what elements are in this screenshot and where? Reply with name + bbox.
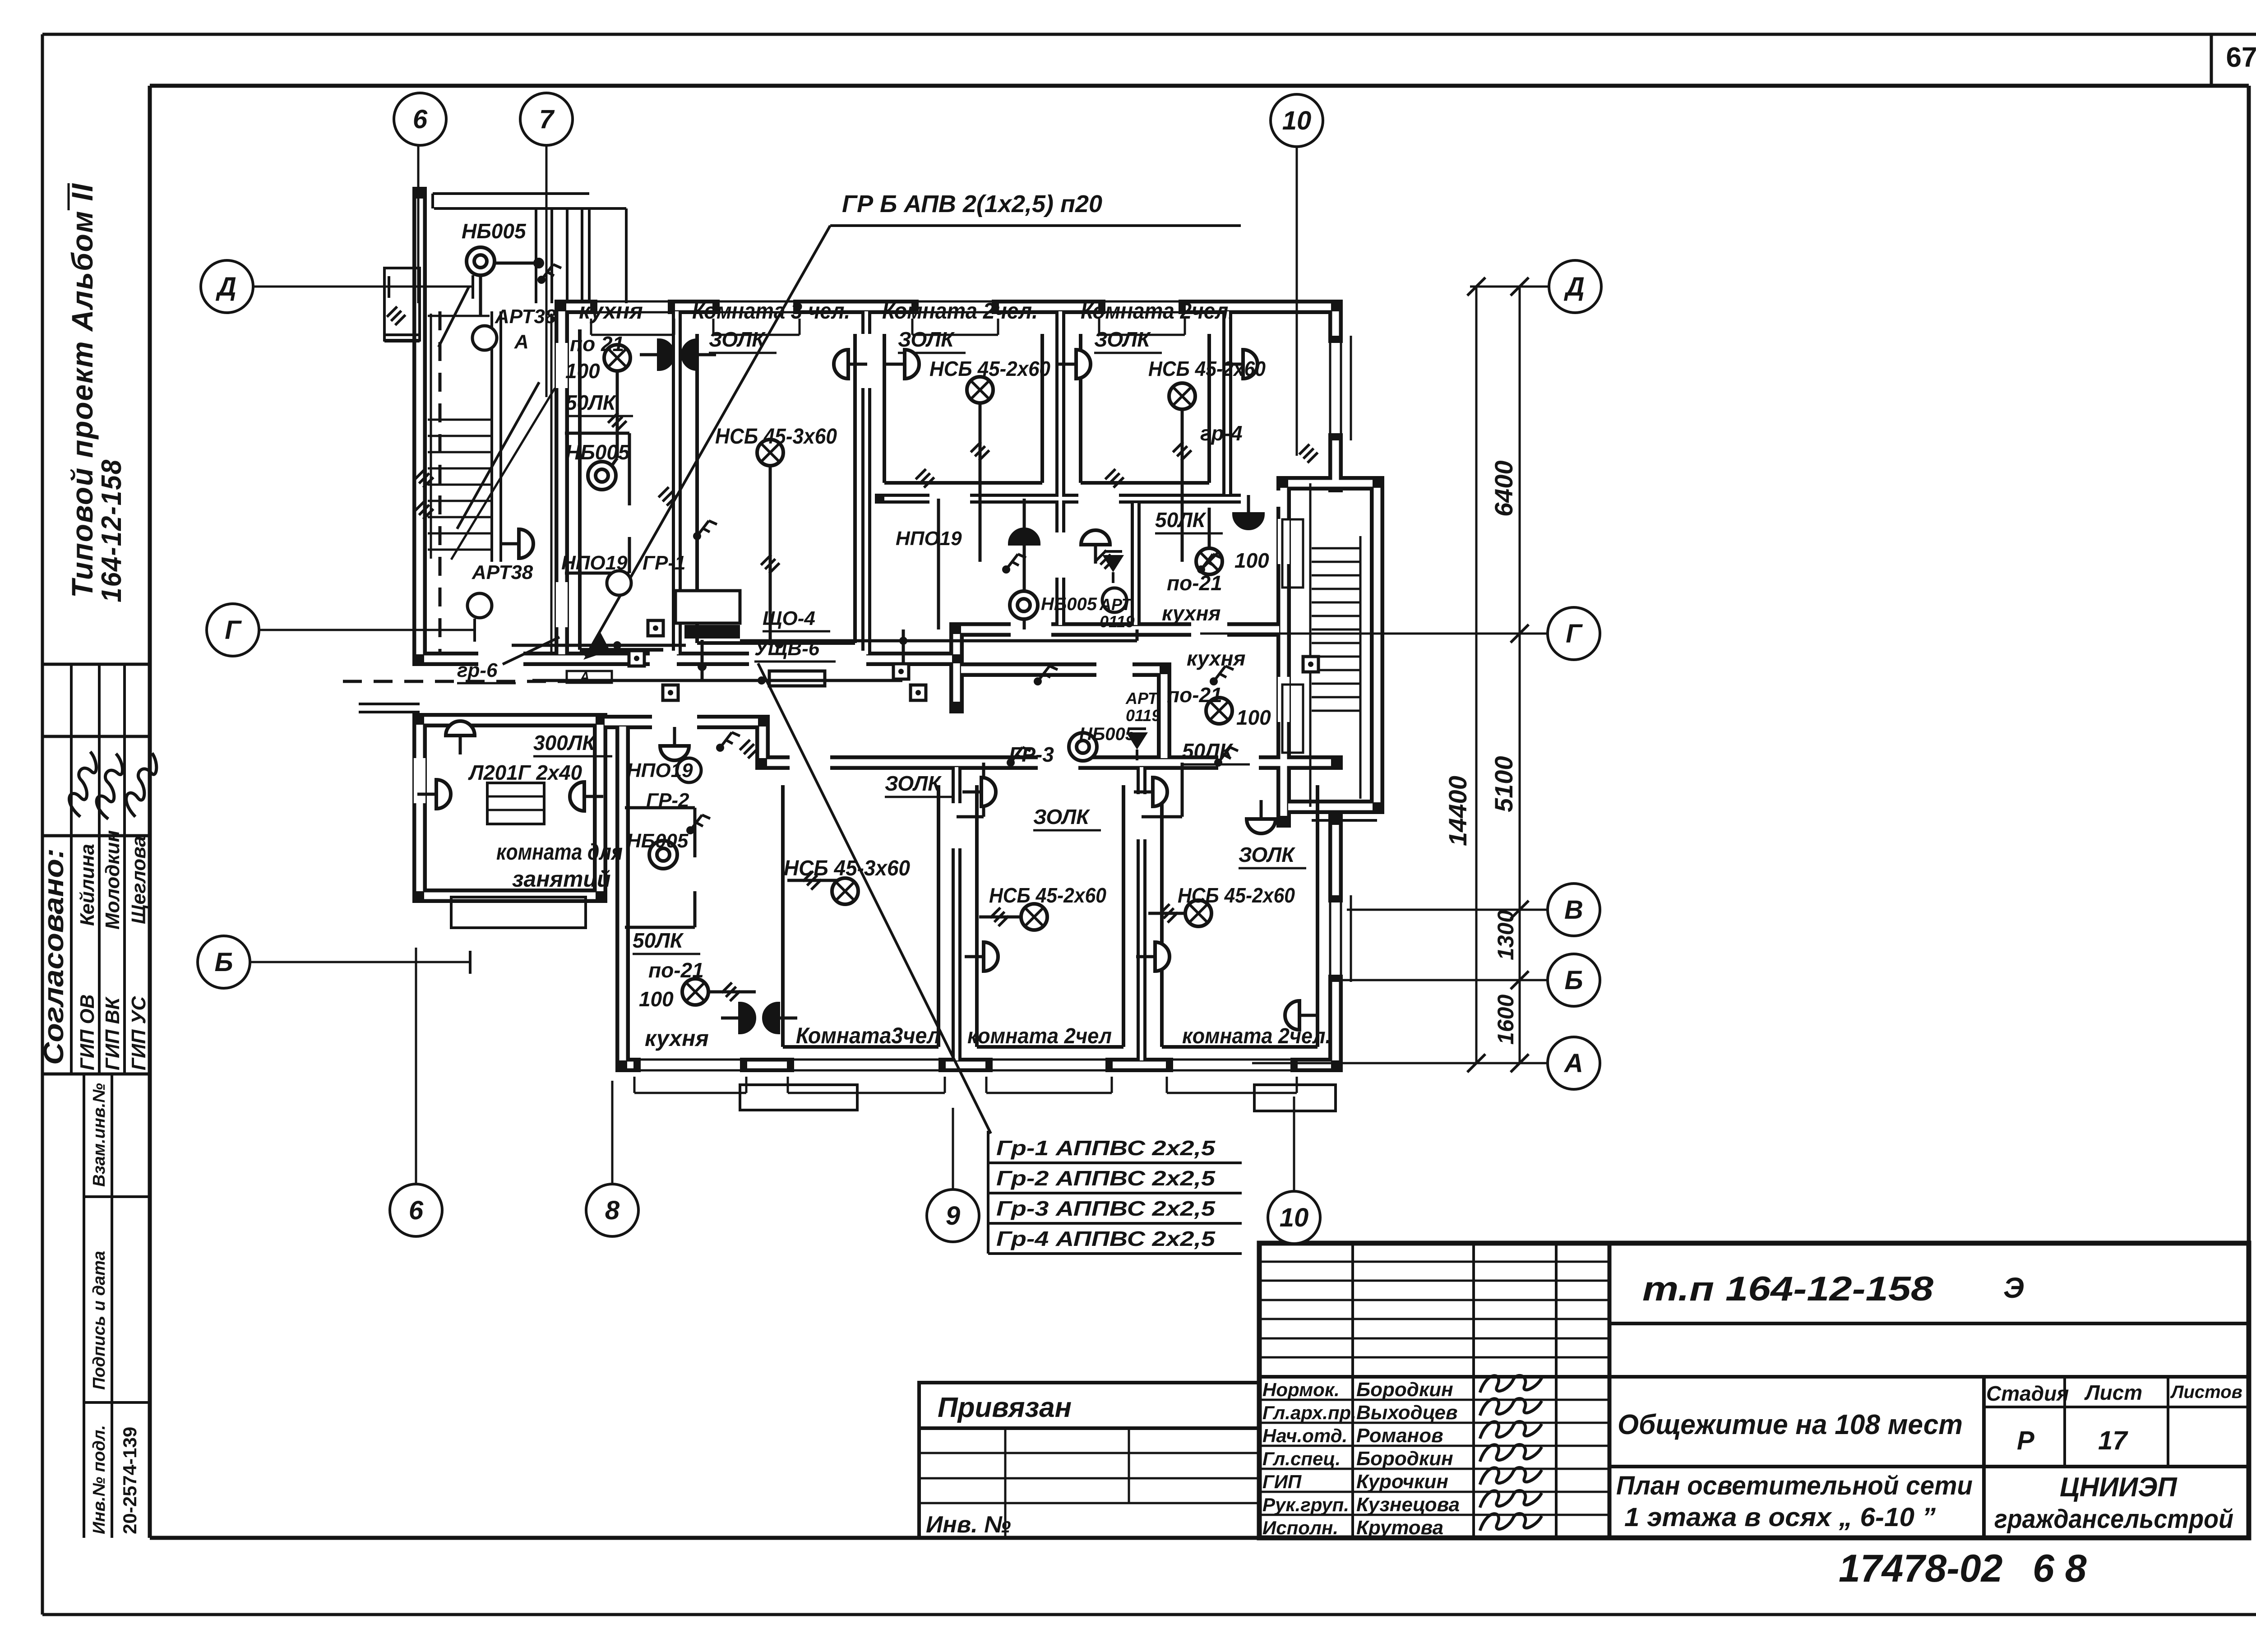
svg-text:Р: Р (2017, 1426, 2034, 1455)
svg-text:0119: 0119 (1126, 706, 1160, 725)
svg-text:ЗОЛК: ЗОЛК (1033, 805, 1090, 828)
svg-text:ГИП ВК: ГИП ВК (102, 996, 124, 1070)
svg-text:50ЛК: 50ЛК (565, 391, 617, 414)
svg-text:Лист: Лист (2084, 1381, 2142, 1404)
svg-text:Привязан: Привязан (938, 1392, 1072, 1423)
svg-text:Исполн.: Исполн. (1262, 1517, 1338, 1538)
svg-text:9: 9 (946, 1201, 960, 1231)
svg-text:7: 7 (539, 105, 555, 134)
svg-text:1 этажа в осях „ 6-10 ”: 1 этажа в осях „ 6-10 ” (1624, 1503, 1936, 1532)
svg-text:В: В (1564, 895, 1583, 925)
svg-text:НСБ 45-2х60: НСБ 45-2х60 (1178, 884, 1295, 907)
svg-text:НСБ 45-2х60: НСБ 45-2х60 (989, 884, 1106, 907)
svg-text:АРТ: АРТ (1099, 595, 1133, 614)
svg-text:50ЛК: 50ЛК (633, 929, 684, 952)
svg-text:Нач.отд.: Нач.отд. (1262, 1425, 1347, 1446)
svg-text:6: 6 (409, 1196, 424, 1225)
svg-text:А: А (579, 670, 590, 685)
svg-text:Стадия: Стадия (1986, 1382, 2069, 1405)
svg-text:т.п 164-12-158: т.п 164-12-158 (1642, 1270, 1934, 1308)
svg-text:Щеглова: Щеглова (128, 836, 150, 924)
svg-text:Д: Д (1563, 272, 1585, 301)
svg-text:ЦНИИЭП: ЦНИИЭП (2060, 1472, 2178, 1502)
svg-text:НПО19: НПО19 (627, 759, 693, 782)
svg-text:АРТ38: АРТ38 (472, 561, 533, 583)
svg-text:НБ005: НБ005 (462, 219, 527, 243)
svg-text:А: А (514, 331, 529, 353)
svg-text:ЗОЛК: ЗОЛК (1094, 328, 1151, 351)
svg-text:НСБ 45-3х60: НСБ 45-3х60 (784, 856, 910, 880)
svg-text:300ЛК: 300ЛК (533, 731, 596, 754)
svg-text:Молодкин: Молодкин (102, 830, 124, 930)
svg-text:А: А (1563, 1049, 1583, 1078)
svg-text:Л201Г 2х40: Л201Г 2х40 (468, 761, 582, 784)
svg-text:комната 2чел.: комната 2чел. (1182, 1024, 1331, 1048)
svg-text:НПО19: НПО19 (561, 552, 628, 574)
svg-text:НПО19: НПО19 (896, 528, 962, 550)
svg-text:Гл.спец.: Гл.спец. (1262, 1448, 1341, 1469)
svg-text:Общежитие на 108 мест: Общежитие на 108 мест (1618, 1409, 1963, 1440)
svg-text:Гр-3 АППВС 2х2,5: Гр-3 АППВС 2х2,5 (996, 1197, 1216, 1220)
svg-text:100: 100 (1234, 549, 1269, 572)
svg-text:АРТ38: АРТ38 (495, 305, 556, 328)
svg-text:комната 2чел: комната 2чел (967, 1024, 1112, 1048)
svg-text:Согласовано:: Согласовано: (38, 848, 69, 1065)
svg-text:Кейлина: Кейлина (76, 844, 98, 926)
svg-text:164-12-158: 164-12-158 (96, 459, 127, 602)
svg-text:Бородкин: Бородкин (1356, 1448, 1453, 1470)
svg-text:Гл.арх.пр.: Гл.арх.пр. (1262, 1402, 1356, 1423)
svg-text:ЗОЛК: ЗОЛК (1239, 843, 1295, 866)
svg-text:17: 17 (2098, 1426, 2128, 1455)
svg-text:комната для: комната для (496, 839, 623, 865)
svg-text:Комната3чел: Комната3чел (796, 1023, 940, 1048)
svg-text:1300: 1300 (1493, 910, 1518, 960)
svg-text:ГР Б АПВ 2(1х2,5) п20: ГР Б АПВ 2(1х2,5) п20 (842, 190, 1102, 217)
svg-text:ГР-1: ГР-1 (643, 552, 685, 574)
svg-text:ГР-2: ГР-2 (646, 789, 689, 811)
svg-text:Э: Э (2003, 1272, 2024, 1304)
svg-text:Б: Б (1564, 966, 1583, 995)
svg-text:Гр-4 АППВС 2х2,5: Гр-4 АППВС 2х2,5 (996, 1227, 1216, 1250)
svg-text:14400: 14400 (1443, 776, 1472, 846)
svg-text:Кузнецова: Кузнецова (1356, 1494, 1460, 1516)
svg-text:Листов: Листов (2170, 1382, 2242, 1402)
svg-text:НБ005: НБ005 (627, 830, 689, 852)
svg-text:НСБ 45-2х60: НСБ 45-2х60 (1148, 357, 1266, 380)
svg-text:Б: Б (214, 948, 233, 977)
svg-text:50ЛК: 50ЛК (1155, 508, 1207, 532)
svg-text:Подпись и дата: Подпись и дата (90, 1251, 109, 1390)
svg-text:Комната 2чел.: Комната 2чел. (1081, 298, 1234, 324)
svg-text:по-21: по-21 (648, 958, 704, 982)
svg-text:10: 10 (1282, 106, 1312, 135)
svg-text:10: 10 (1280, 1203, 1309, 1232)
svg-text:Нормок.: Нормок. (1262, 1379, 1340, 1400)
svg-text:Курочкин: Курочкин (1356, 1471, 1448, 1493)
svg-text:Романов: Романов (1356, 1425, 1443, 1447)
svg-text:Инв. №: Инв. № (926, 1512, 1011, 1538)
svg-text:Крутова: Крутова (1356, 1517, 1443, 1539)
svg-text:НБ005: НБ005 (1079, 724, 1136, 744)
svg-text:ЩО-4: ЩО-4 (763, 607, 815, 629)
svg-text:0119: 0119 (1100, 612, 1134, 631)
svg-text:НСБ 45-2х60: НСБ 45-2х60 (929, 357, 1050, 380)
svg-text:УЩВ-6: УЩВ-6 (754, 638, 820, 660)
svg-text:кухня: кухня (579, 298, 643, 324)
svg-text:ЗОЛК: ЗОЛК (709, 328, 766, 351)
svg-text:ГИП УС: ГИП УС (128, 996, 150, 1070)
svg-text:Д: Д (215, 272, 236, 301)
svg-text:Гр-2 АППВС 2х2,5: Гр-2 АППВС 2х2,5 (996, 1166, 1216, 1190)
svg-text:Гр-1 АППВС 2х2,5: Гр-1 АППВС 2х2,5 (996, 1136, 1216, 1160)
svg-text:граждансельстрой: граждансельстрой (1994, 1504, 2233, 1534)
svg-text:ЗОЛК: ЗОЛК (898, 328, 955, 351)
svg-text:Взам.инв.№: Взам.инв.№ (90, 1083, 109, 1187)
svg-text:Комната 3 чел.: Комната 3 чел. (692, 298, 850, 324)
svg-text:20-2574-139: 20-2574-139 (119, 1427, 140, 1534)
svg-text:Выходцев: Выходцев (1356, 1402, 1458, 1424)
svg-text:6: 6 (413, 105, 428, 134)
svg-text:100: 100 (565, 359, 600, 383)
svg-text:кухня: кухня (1187, 647, 1245, 670)
svg-text:100: 100 (639, 987, 674, 1011)
svg-text:17478-02: 17478-02 (1839, 1547, 2002, 1590)
svg-text:НБ005: НБ005 (1041, 594, 1097, 614)
svg-text:НСБ 45-3х60: НСБ 45-3х60 (715, 425, 837, 449)
svg-text:План осветительной сети: План осветительной сети (1616, 1471, 1973, 1500)
svg-text:кухня: кухня (1162, 602, 1220, 625)
svg-text:8: 8 (605, 1196, 620, 1225)
svg-text:Г: Г (225, 615, 242, 645)
svg-text:по-21: по-21 (1167, 571, 1222, 595)
svg-text:НБ005: НБ005 (565, 440, 630, 464)
svg-text:5100: 5100 (1489, 756, 1518, 812)
svg-text:АРТ: АРТ (1125, 689, 1159, 708)
svg-text:по 21: по 21 (570, 332, 624, 356)
svg-text:6 8: 6 8 (2033, 1547, 2087, 1590)
svg-text:гр-4: гр-4 (1200, 421, 1243, 445)
svg-text:ГИП: ГИП (1262, 1471, 1302, 1492)
svg-text:занятий: занятий (512, 866, 611, 892)
svg-text:Инв.№ подл.: Инв.№ подл. (90, 1425, 109, 1534)
svg-text:ЗОЛК: ЗОЛК (885, 772, 942, 795)
svg-text:Рук.груп.: Рук.груп. (1262, 1494, 1349, 1515)
svg-text:6400: 6400 (1489, 460, 1518, 517)
svg-text:1600: 1600 (1493, 995, 1518, 1045)
svg-text:гр-6: гр-6 (457, 659, 498, 681)
svg-text:67: 67 (2226, 42, 2256, 73)
svg-text:ГИП ОВ: ГИП ОВ (76, 994, 98, 1070)
svg-text:Г: Г (1566, 619, 1583, 648)
svg-text:ГР-3: ГР-3 (1009, 743, 1054, 766)
svg-text:Типовой проект Альбом II: Типовой проект Альбом II (65, 183, 99, 598)
svg-text:Комната 2чел.: Комната 2чел. (882, 298, 1038, 324)
svg-text:100: 100 (1236, 706, 1271, 729)
svg-text:50ЛК: 50ЛК (1182, 739, 1234, 763)
svg-text:по-21: по-21 (1167, 683, 1222, 707)
svg-text:Бородкин: Бородкин (1356, 1379, 1453, 1401)
svg-text:кухня: кухня (645, 1026, 709, 1051)
